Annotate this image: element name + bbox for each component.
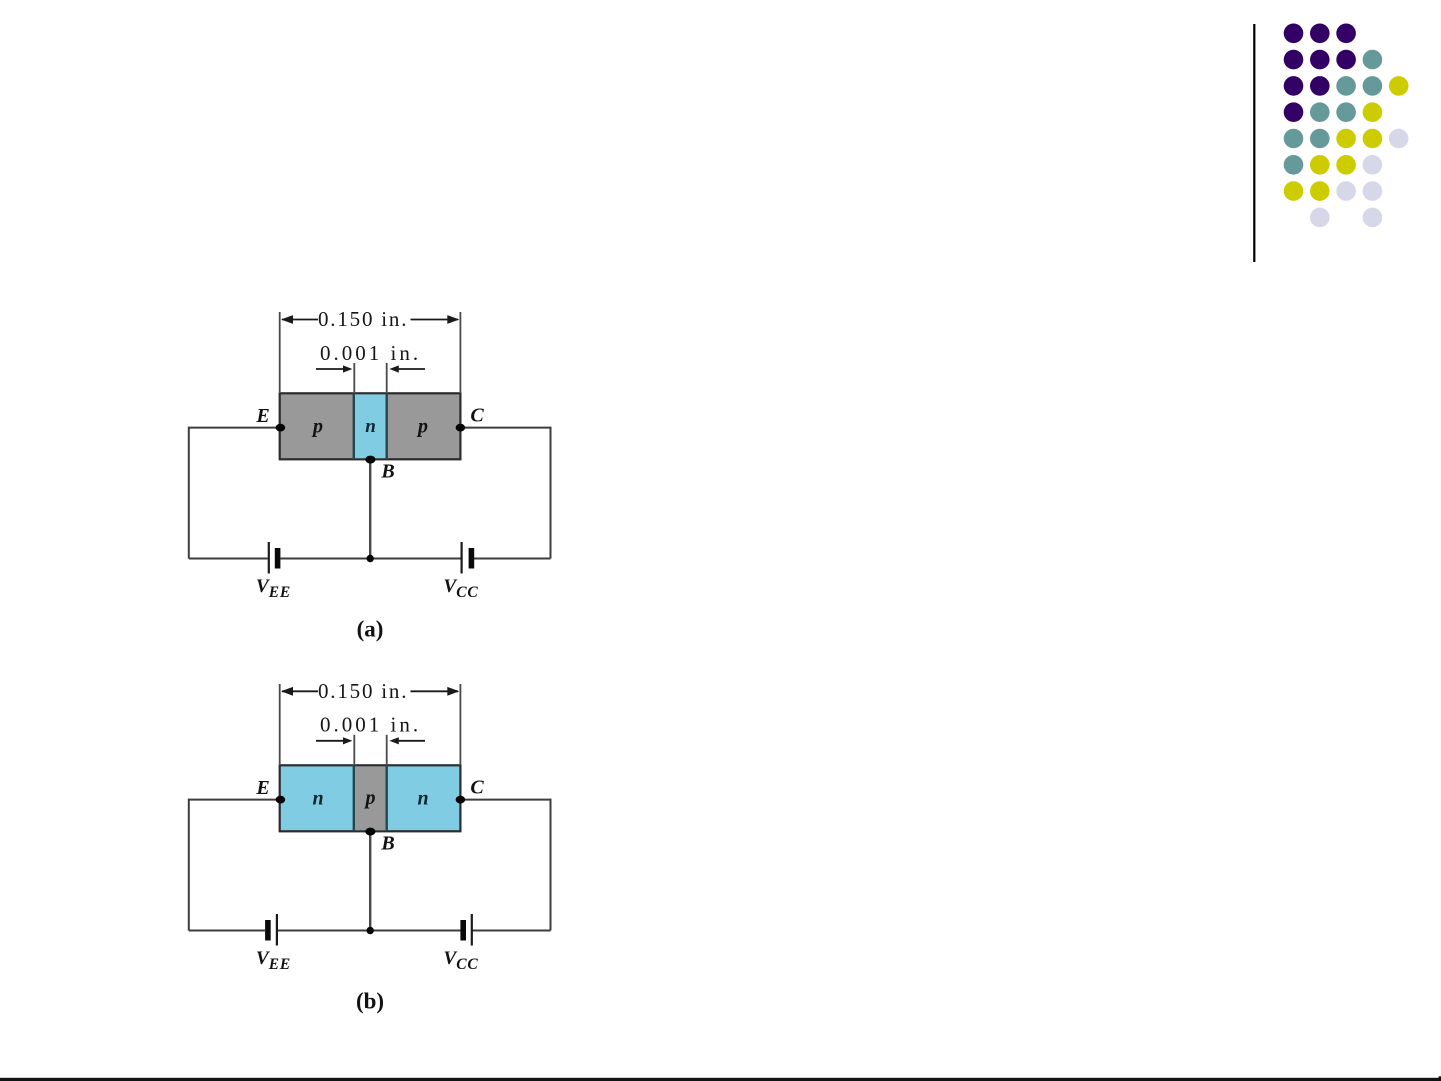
- svg-text:n: n: [417, 787, 428, 809]
- svg-text:(a): (a): [357, 617, 384, 642]
- svg-text:0.001 in.: 0.001 in.: [320, 713, 421, 737]
- svg-text:B: B: [380, 833, 394, 855]
- svg-text:B: B: [380, 461, 394, 483]
- svg-text:p: p: [364, 787, 376, 809]
- svg-text:E: E: [255, 777, 269, 799]
- svg-text:p: p: [416, 415, 428, 437]
- svg-text:n: n: [312, 787, 323, 809]
- svg-text:VEE: VEE: [256, 576, 291, 601]
- svg-text:C: C: [470, 777, 484, 799]
- svg-text:VCC: VCC: [444, 948, 479, 973]
- svg-text:C: C: [470, 405, 484, 427]
- svg-text:(b): (b): [356, 989, 384, 1014]
- svg-text:VEE: VEE: [256, 948, 291, 973]
- svg-text:0.150 in.: 0.150 in.: [318, 679, 408, 703]
- svg-text:VCC: VCC: [444, 576, 479, 601]
- svg-text:0.001 in.: 0.001 in.: [320, 341, 421, 365]
- svg-text:p: p: [311, 415, 323, 437]
- svg-text:n: n: [365, 416, 376, 437]
- svg-text:E: E: [255, 405, 269, 427]
- svg-text:0.150 in.: 0.150 in.: [318, 307, 408, 331]
